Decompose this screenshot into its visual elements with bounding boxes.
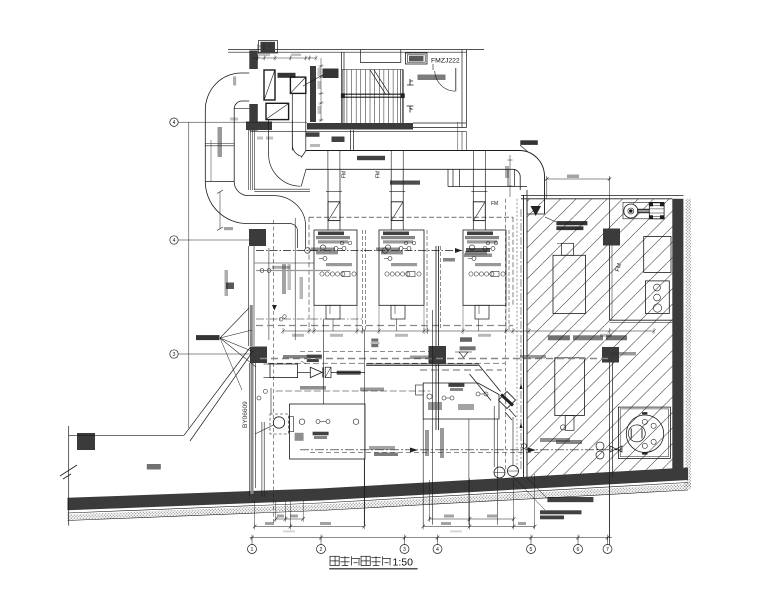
svg-text:5: 5 (530, 547, 533, 553)
svg-text:7: 7 (606, 547, 609, 553)
svg-text:1: 1 (251, 547, 254, 553)
svg-text:4: 4 (436, 547, 439, 553)
svg-text:FM: FM (376, 171, 382, 178)
svg-text:FM: FM (491, 201, 498, 207)
svg-text:BY06609: BY06609 (242, 401, 249, 428)
svg-text:4: 4 (173, 120, 176, 126)
svg-text:FM: FM (342, 171, 348, 178)
svg-text:1:50: 1:50 (393, 556, 414, 568)
svg-text:3: 3 (403, 547, 406, 553)
svg-text:FMZJ222: FMZJ222 (431, 58, 460, 65)
svg-text:2: 2 (320, 547, 323, 553)
svg-text:4: 4 (173, 238, 176, 244)
svg-text:6: 6 (577, 547, 580, 553)
svg-text:3: 3 (173, 352, 176, 358)
